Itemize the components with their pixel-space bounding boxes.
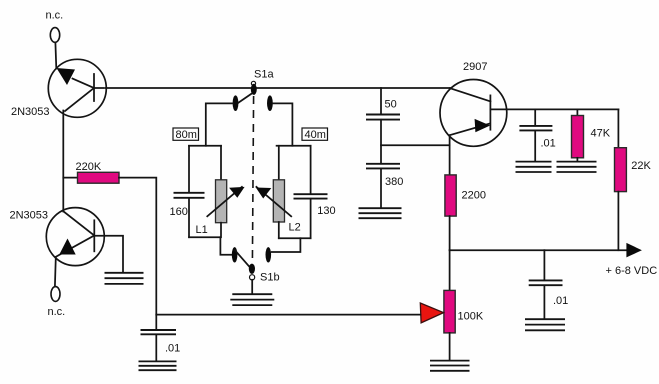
wire R100K bottom to ground [449, 333, 451, 360]
wire wiper rail [156, 314, 420, 316]
wire left tank to S1b left contact [220, 237, 232, 255]
transistor Q1 emitter arrow [57, 68, 76, 85]
label box 80m [173, 128, 199, 141]
svg-text:2907: 2907 [463, 61, 487, 73]
capacitor C130 [294, 194, 328, 198]
transistor Q1 circle [48, 59, 106, 117]
wire Q2 base lead [94, 236, 123, 273]
label box 40m [302, 128, 328, 141]
svg-text:220K: 220K [76, 161, 102, 173]
wire capacitor 130 top lead [310, 146, 312, 194]
wire 50pF bottom to 380 top [380, 120, 382, 164]
wire C.01 mid bottom lead [534, 131, 536, 162]
wire S1a left contact to 80m branch [206, 103, 233, 145]
wire 2907 collector to R2200 [449, 135, 451, 175]
switch S1b pole [249, 264, 255, 274]
output arrow [626, 243, 642, 258]
capacitor C160 [174, 193, 205, 198]
capacitor C.01 right [529, 280, 563, 285]
svg-text:100K: 100K [458, 310, 484, 322]
wire right tank bottom rail [279, 237, 311, 239]
transistor Q1 base bar [93, 74, 95, 101]
wire capacitor 160 top lead [188, 146, 190, 193]
wire S1a-S1b gang dashed link [252, 96, 253, 263]
wire S1a right contact to 40m branch [273, 103, 293, 145]
wire R47K bottom lead [576, 158, 578, 162]
inductor L2 adjust diagonal [256, 187, 291, 216]
svg-text:2N3053: 2N3053 [10, 210, 49, 222]
ground below C.01 right [525, 319, 565, 330]
wire C.01 left bottom lead [155, 335, 157, 362]
svg-text:380: 380 [385, 176, 403, 188]
wire R2200 bottom to output node [449, 216, 451, 250]
ground below C.01 mid [516, 162, 552, 172]
svg-text:S1a: S1a [254, 69, 274, 81]
svg-text:+ 6-8 VDC: + 6-8 VDC [606, 265, 658, 277]
svg-text:.01: .01 [553, 295, 568, 307]
svg-text:L2: L2 [289, 222, 301, 234]
transistor 2907 base bar [489, 95, 491, 129]
switch S1b left contact [232, 247, 238, 262]
ground below R100K [430, 361, 470, 371]
capacitor C380 [366, 164, 400, 169]
transistor Q1 base lead [94, 87, 104, 89]
wire output rail [450, 249, 627, 251]
wire 50pF top lead [380, 88, 382, 114]
capacitor C.01 mid [519, 126, 552, 130]
ground at Q2 base [105, 273, 144, 284]
svg-text:47K: 47K [591, 128, 611, 140]
svg-text:S1b: S1b [260, 272, 280, 284]
wire right tank to S1b right contact [272, 238, 301, 252]
switch S1a left contact [233, 95, 239, 111]
transistor Q1 collector diagonal [65, 88, 94, 111]
transistor Q1 emitter diagonal [73, 79, 95, 89]
wire right tank bottom [278, 222, 280, 238]
wire left tank top [189, 145, 221, 147]
transistor 2907 emitter diagonal [450, 88, 490, 101]
resistor R22K [615, 148, 627, 192]
wire Q1 emitter lead [54, 43, 57, 69]
inductor L1 adjust diagonal [207, 187, 242, 216]
svg-text:.01: .01 [165, 343, 180, 355]
svg-text:50: 50 [385, 99, 397, 111]
transistor Q2 collector diagonal [63, 211, 94, 235]
wire 380 bottom lead [380, 169, 382, 208]
svg-text:L1: L1 [196, 224, 208, 236]
wire 220K left lead [63, 177, 77, 179]
switch S1b right contact [266, 247, 272, 262]
ground below C380 [359, 208, 402, 218]
svg-text:2N3053: 2N3053 [11, 106, 50, 118]
inductor L2 adjust arrowhead [256, 188, 271, 199]
resistor R47K [572, 116, 584, 158]
switch S1a pole [251, 84, 257, 95]
inductor L2 [273, 180, 284, 222]
wire Q2 emitter lead [54, 257, 57, 287]
wire 220K right lead [119, 178, 156, 315]
transistor 2907 collector arrow [475, 119, 491, 132]
wire R22K bottom lead [617, 192, 619, 251]
svg-text:n.c.: n.c. [48, 306, 66, 318]
resistor 220K [78, 172, 120, 183]
capacitor C.01 left [141, 330, 177, 334]
svg-text:.01: .01 [541, 137, 556, 149]
wire inductor L2 top lead [278, 146, 280, 181]
wire R22K top lead [617, 109, 619, 147]
wire C.01 mid top lead [534, 109, 536, 125]
wire C.01 right bottom lead [543, 285, 545, 319]
wire inductor L1 bottom lead [220, 223, 222, 238]
potentiometer wiper arrow [420, 303, 443, 323]
inductor L1 adjust arrowhead [229, 187, 245, 198]
transistor 2907 collector diagonal [450, 124, 490, 136]
wire output node down to R100K [449, 250, 451, 290]
wire left tank bottom [189, 236, 220, 238]
wire inductor L1 top lead [220, 146, 222, 181]
wire 2907 base lead rail [490, 108, 618, 110]
transistor U1 2907 circle [440, 80, 507, 147]
transistor Q2 base bar [93, 220, 95, 251]
switch S1b pivot circle [250, 275, 255, 280]
transistor Q2 emitter arrow [59, 239, 75, 255]
wire S1b pole to ground [251, 280, 253, 294]
switch S1a moving contact [237, 94, 251, 104]
ground below C.01 left [139, 361, 177, 370]
svg-text:160: 160 [170, 206, 188, 218]
capacitor C50 [366, 115, 400, 120]
svg-text:n.c.: n.c. [46, 10, 64, 22]
wire capacitor 160 bottom lead [188, 198, 190, 237]
svg-text:80m: 80m [176, 129, 197, 141]
inductor L1 [216, 180, 227, 223]
transistor Q2 emitter diagonal [56, 236, 95, 257]
svg-text:130: 130 [317, 205, 335, 217]
wire Q1 collector to Q2 collector [62, 111, 64, 212]
svg-text:22K: 22K [631, 160, 651, 172]
resistor R2200 [445, 175, 456, 216]
wire capacitor 130 bottom lead [310, 199, 312, 238]
terminal oval n.c. bottom [51, 287, 60, 302]
ground below R47K [557, 162, 597, 172]
switch S1b moving contact [235, 250, 252, 270]
terminal oval n.c. top [50, 28, 59, 43]
wire R47K top lead [576, 109, 578, 115]
wire main top rail [106, 87, 451, 89]
switch S1a pivot circle [251, 81, 255, 85]
wire right tank top [277, 145, 311, 147]
wire C.01 left top lead [155, 315, 157, 330]
potentiometer R100K [444, 290, 455, 333]
wire C.01 right top lead [543, 250, 545, 280]
wire junction to 2907 collector [381, 144, 450, 146]
svg-text:2200: 2200 [462, 190, 486, 202]
ground at S1b [230, 294, 274, 305]
svg-text:40m: 40m [305, 129, 326, 141]
switch S1a right contact [267, 95, 273, 111]
transistor Q2 circle [46, 208, 104, 266]
